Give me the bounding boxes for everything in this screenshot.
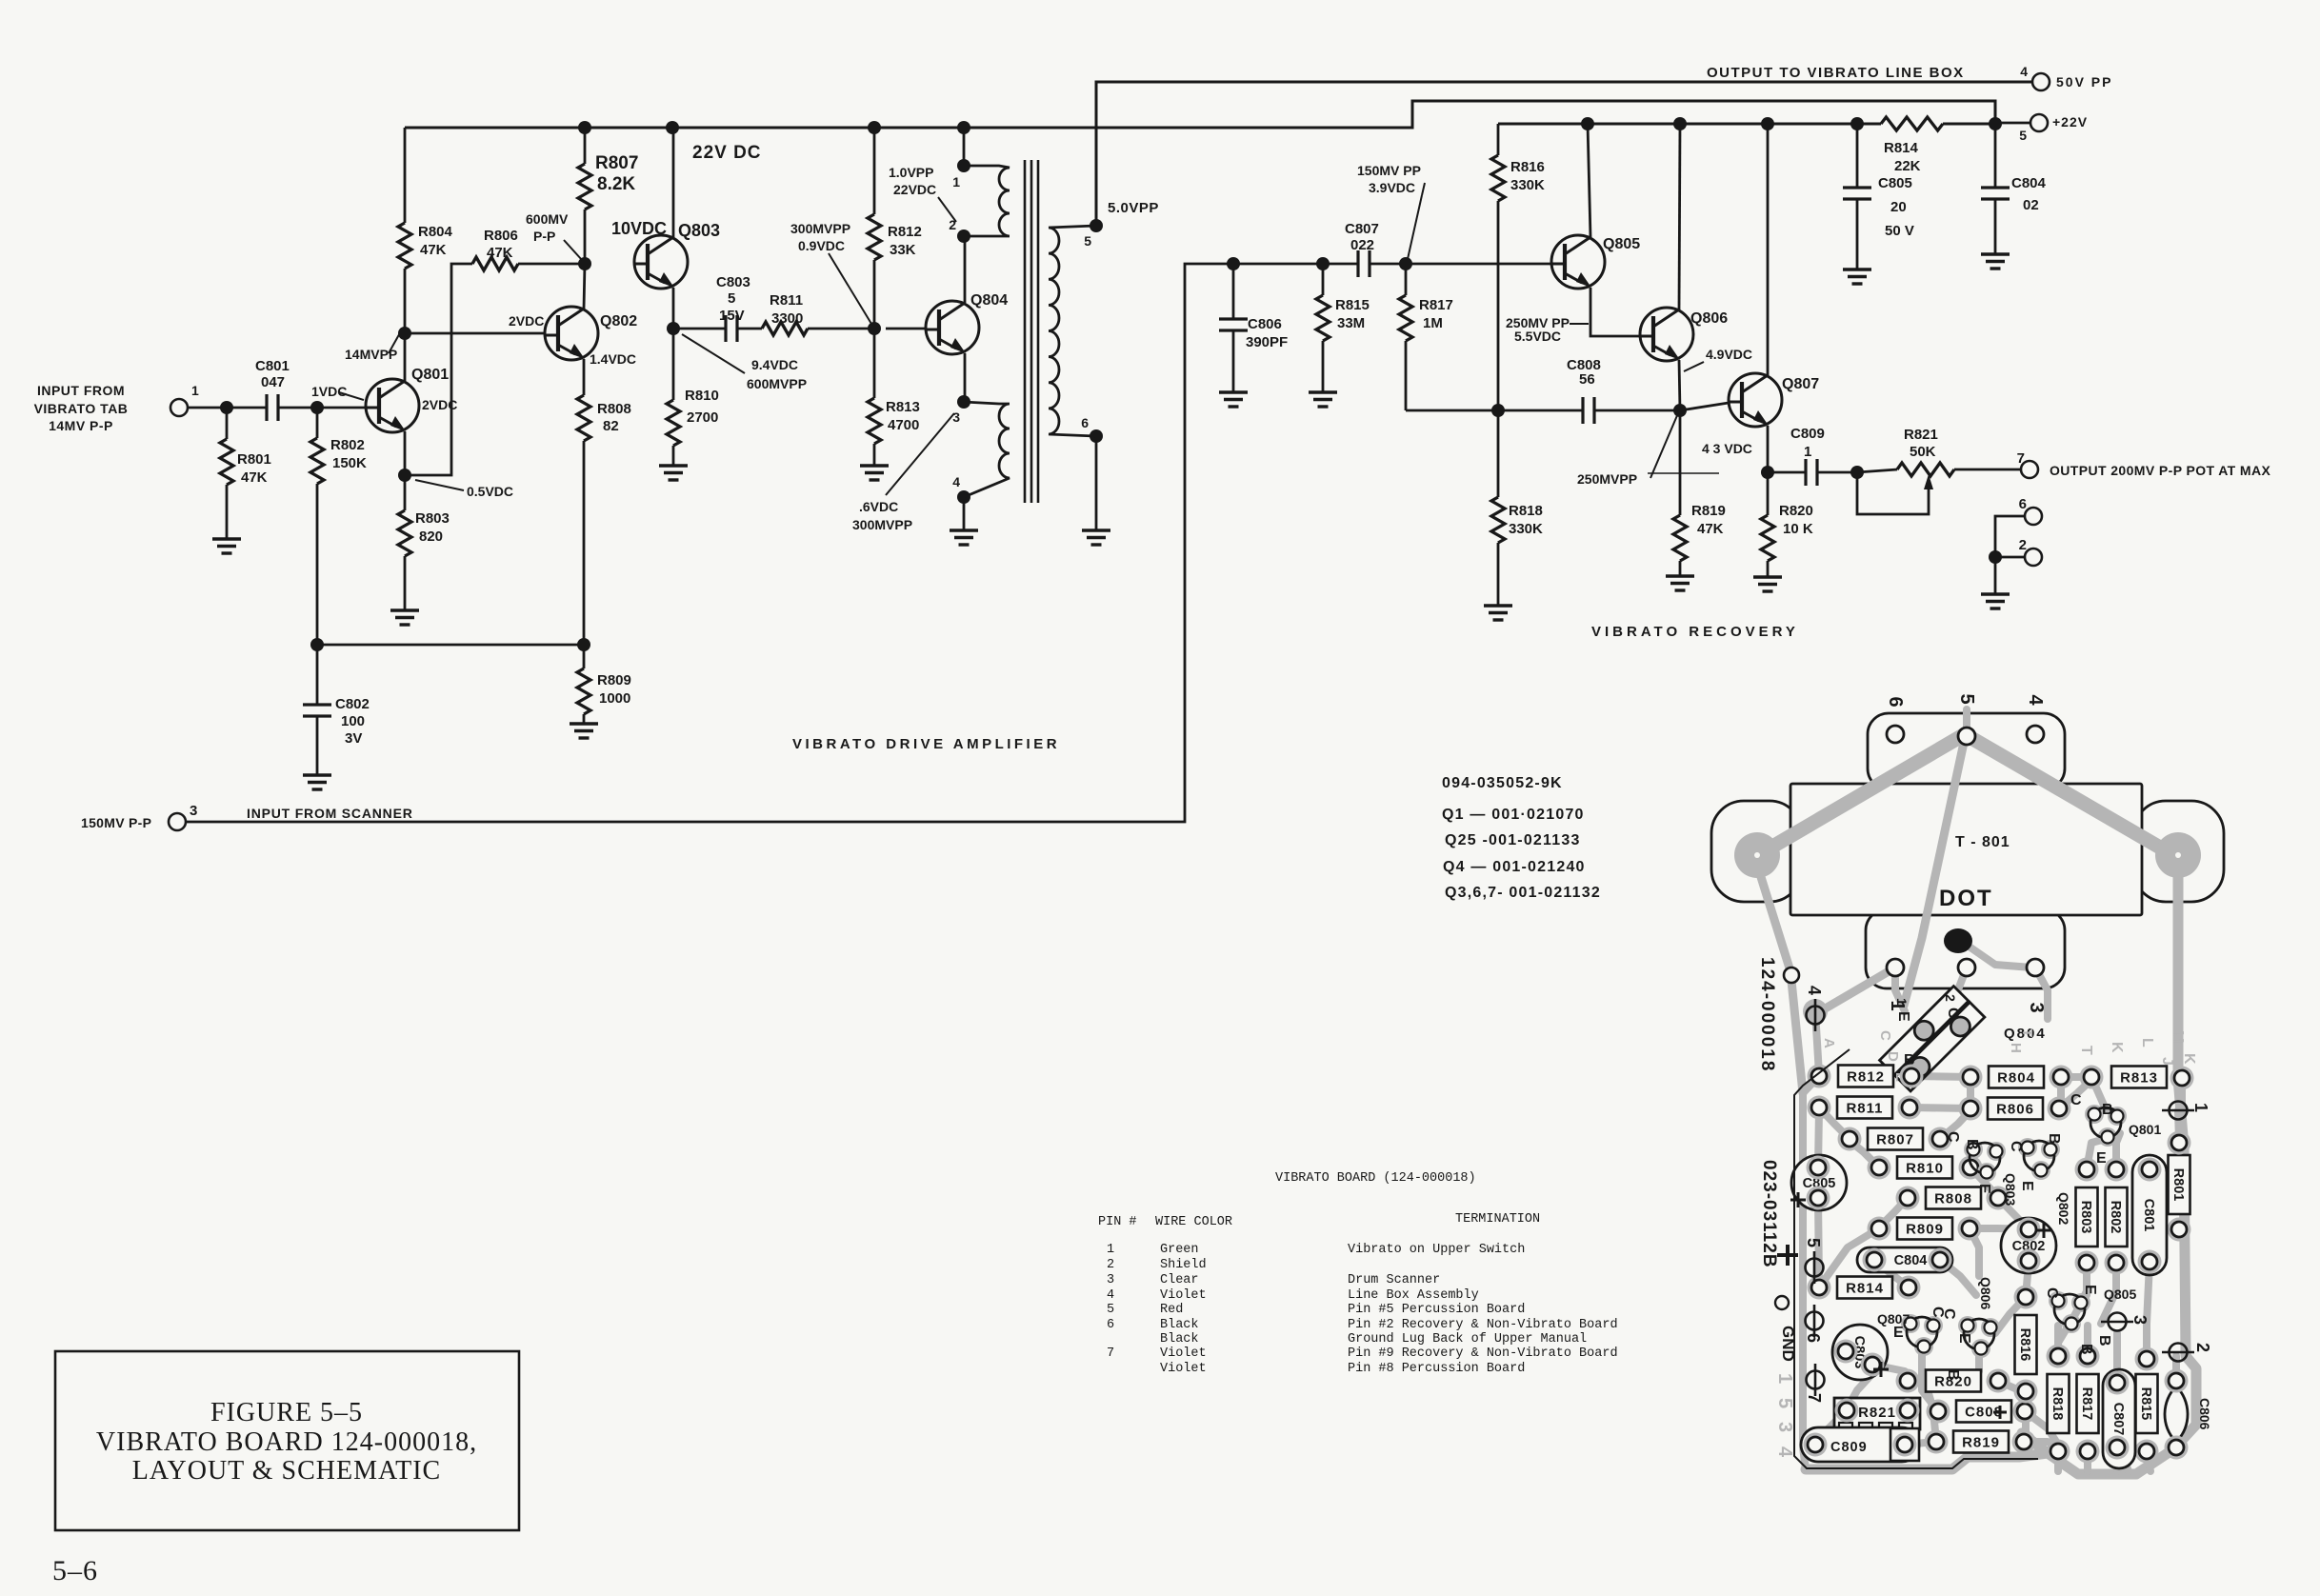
- pcb R811: [1837, 1097, 1892, 1119]
- pcb trace x10: [2025, 1229, 2032, 1261]
- svg-text:T: T: [2019, 1028, 2035, 1037]
- wire C803 to R811: [737, 328, 762, 330]
- wire Q806 emitter: [1679, 360, 1680, 410]
- svg-text:2: 2: [2193, 1343, 2212, 1352]
- ground R819: [1666, 576, 1694, 590]
- node R821: [1850, 466, 1864, 479]
- transistor Q802: [545, 307, 598, 360]
- pcb trace hole1 to pin4: [1817, 968, 1895, 1013]
- svg-text:R813: R813: [2120, 1070, 2158, 1087]
- svg-text:TERMINATION: TERMINATION: [1455, 1212, 1540, 1227]
- svg-text:Black: Black: [1160, 1318, 1199, 1332]
- pcb pad: [2050, 1066, 2073, 1089]
- pcb pad: [2080, 1066, 2104, 1089]
- svg-text:3: 3: [2026, 1002, 2047, 1012]
- svg-text:Shield: Shield: [1160, 1258, 1207, 1272]
- svg-text:6: 6: [1804, 1333, 1823, 1343]
- svg-text:47K: 47K: [487, 245, 513, 261]
- pcb pad: [1959, 1156, 1983, 1180]
- svg-text:OUTPUT TO VIBRATO LINE BOX: OUTPUT TO VIBRATO LINE BOX: [1707, 65, 1965, 81]
- pcb R808: [1926, 1187, 1981, 1209]
- capacitor C806: [1219, 319, 1248, 330]
- resistor R818: [1491, 497, 1505, 543]
- pcb pad: [2138, 1250, 2162, 1274]
- svg-text:1: 1: [191, 383, 199, 398]
- wire node to Q805 base: [1406, 263, 1551, 266]
- terminal pin 5 +22V: [2030, 114, 2048, 131]
- wire node to R818: [1497, 410, 1500, 497]
- svg-text:Q807: Q807: [1782, 376, 1819, 392]
- svg-text:Violet: Violet: [1160, 1288, 1207, 1303]
- svg-text:Clear: Clear: [1160, 1273, 1199, 1287]
- pcb pad: [1959, 1097, 1983, 1121]
- svg-text:6: 6: [1885, 696, 1906, 707]
- svg-text:2: 2: [1943, 994, 1958, 1002]
- pcb R817: [2077, 1374, 2099, 1433]
- node R816/R818: [1491, 404, 1505, 417]
- wire node to R817: [1405, 264, 1408, 295]
- svg-text:5: 5: [1956, 693, 1977, 704]
- capacitor C804: [1981, 188, 2010, 199]
- svg-text:R810: R810: [1906, 1161, 1944, 1177]
- pcb trace x7: [2057, 1077, 2065, 1105]
- pcb transistor Q802: [2018, 1138, 2037, 1157]
- pcb trace 3: [2059, 1080, 2091, 1108]
- svg-text:C803: C803: [716, 274, 750, 290]
- svg-text:10VDC: 10VDC: [611, 219, 667, 238]
- pcb trace 34: [1962, 1348, 1979, 1381]
- svg-text:Black: Black: [1160, 1332, 1199, 1347]
- svg-text:Red: Red: [1160, 1303, 1183, 1317]
- resistor R803: [398, 510, 411, 556]
- svg-text:E: E: [2096, 1150, 2107, 1167]
- svg-text:C: C: [2044, 1287, 2060, 1299]
- pcb pad: [1897, 1276, 1921, 1300]
- pcb capacitor C801: [2132, 1155, 2167, 1275]
- pcb trace 19: [2147, 1263, 2150, 1359]
- pcb pin 2: [2162, 1344, 2194, 1362]
- pcb pad: [1898, 1096, 1922, 1120]
- pcb trace 37: [1963, 709, 1970, 736]
- svg-text:2VDC: 2VDC: [509, 313, 544, 329]
- svg-text:300MVPP: 300MVPP: [790, 221, 850, 236]
- terminal pin 2: [2025, 549, 2042, 566]
- pcb trace left pad down: [1756, 862, 1803, 1093]
- pcb trace 16: [2101, 1263, 2116, 1324]
- svg-text:4700: 4700: [888, 417, 919, 433]
- wire to +22V terminal: [1995, 122, 2030, 125]
- pcb pad: [1804, 1433, 1828, 1457]
- pcb pad: [2012, 1430, 2036, 1454]
- wire C804 to ground: [1994, 199, 1997, 254]
- svg-text:7: 7: [1805, 1393, 1824, 1403]
- wire node to C809: [1768, 471, 1806, 474]
- pcb trace x2: [2119, 1446, 2129, 1471]
- pcb trace 25: [2113, 1333, 2121, 1383]
- terminal pin 1 input: [170, 399, 188, 416]
- pcb trace 22: [2025, 1411, 2058, 1445]
- pcb trace x17: [2178, 1078, 2186, 1110]
- wire Q804 emitter to pin3: [964, 353, 967, 402]
- leader 1VDC: [339, 392, 364, 400]
- wire R816 to node: [1497, 201, 1500, 410]
- svg-text:023-03112B: 023-03112B: [1759, 1160, 1779, 1268]
- pcb board outline: [1794, 1049, 2038, 1468]
- wire to R809: [583, 645, 586, 668]
- node rail C805: [1850, 117, 1864, 130]
- svg-text:P-P: P-P: [533, 229, 555, 244]
- svg-text:150MV PP: 150MV PP: [1357, 163, 1421, 178]
- node R815: [1316, 257, 1330, 270]
- svg-text:Q802: Q802: [600, 313, 637, 329]
- svg-text:33M: 33M: [1337, 315, 1365, 331]
- svg-text:R804: R804: [1997, 1070, 2035, 1087]
- pcb trace 6: [1850, 1141, 1879, 1167]
- svg-text:E: E: [1893, 1325, 1904, 1341]
- wire C802 to ground: [316, 716, 319, 775]
- wire node to Q804 base: [886, 328, 926, 330]
- svg-text:VIBRATO BOARD (124-000018): VIBRATO BOARD (124-000018): [1275, 1171, 1476, 1186]
- pcb T801 hole 2: [1958, 959, 1975, 976]
- transistor Q805: [1551, 235, 1605, 289]
- svg-text:B: B: [2078, 1344, 2094, 1355]
- pcb R813: [2111, 1067, 2167, 1088]
- wire R806 to node: [518, 263, 585, 266]
- capacitor C802: [303, 705, 331, 716]
- pcb trace 4: [1940, 1110, 1970, 1139]
- wire rail corner to R816: [1497, 124, 1500, 155]
- resistor R809: [577, 668, 590, 714]
- node C806: [1227, 257, 1240, 270]
- svg-text:R818: R818: [1509, 503, 1543, 519]
- pcb T801 hole 1: [1887, 959, 1904, 976]
- pcb transistor Q804: [1880, 987, 1985, 1091]
- svg-text:R815: R815: [2138, 1387, 2153, 1421]
- svg-text:15V: 15V: [719, 308, 745, 324]
- svg-text:0.5VDC: 0.5VDC: [467, 484, 513, 499]
- wire Q803 collector: [672, 128, 675, 237]
- pcb trace x15: [1895, 968, 1905, 1011]
- pcb pad: [1808, 1096, 1831, 1120]
- node 14MVPP: [398, 327, 411, 340]
- svg-text:VIBRATO DRIVE AMPLIFIER: VIBRATO DRIVE AMPLIFIER: [792, 736, 1060, 752]
- pcb pad: [1808, 1065, 1831, 1088]
- svg-text:1.0VPP: 1.0VPP: [889, 165, 933, 180]
- svg-text:47K: 47K: [241, 469, 268, 486]
- wire R809 to ground: [583, 714, 586, 724]
- svg-text:R802: R802: [330, 437, 365, 453]
- svg-text:C807: C807: [2110, 1403, 2126, 1436]
- svg-text:Q801: Q801: [411, 367, 449, 383]
- pcb trace 1: [2061, 1073, 2091, 1081]
- pcb pin 6: [1806, 1305, 1824, 1337]
- node T801 pin 5: [1090, 219, 1103, 232]
- pcb pad: [2165, 1369, 2189, 1393]
- svg-text:R813: R813: [886, 399, 920, 415]
- pcb trace x12: [2070, 1263, 2087, 1324]
- svg-text:50K: 50K: [1910, 444, 1936, 460]
- pcb transistor Q807: [1901, 1314, 1920, 1333]
- pcb trace 31: [1819, 1228, 1879, 1287]
- svg-text:R816: R816: [1510, 159, 1545, 175]
- svg-text:C801: C801: [2141, 1199, 2156, 1232]
- wire Q804 collector to pin2: [964, 236, 967, 303]
- svg-text:C: C: [1877, 1030, 1893, 1041]
- svg-text:5: 5: [1107, 1303, 1114, 1317]
- resistor R815: [1316, 295, 1330, 341]
- wire pin4 to ground: [963, 497, 966, 530]
- ground T801 pin4: [950, 530, 978, 545]
- pcb pad: [2014, 1380, 2038, 1404]
- svg-text:R817: R817: [2079, 1387, 2094, 1421]
- svg-text:3V: 3V: [345, 730, 362, 747]
- pcb pad: [1808, 1276, 1831, 1300]
- pcb pad: [1868, 1156, 1891, 1180]
- svg-text:R816: R816: [2017, 1328, 2032, 1362]
- pcb trace 2: [1910, 1107, 1970, 1108]
- svg-text:20: 20: [1890, 199, 1907, 215]
- pcb trace left edge: [1803, 1093, 1806, 1469]
- wire C806 to ground: [1232, 330, 1235, 392]
- svg-text:4: 4: [1107, 1288, 1114, 1303]
- ground C802: [303, 775, 331, 789]
- svg-text:Q806: Q806: [1978, 1277, 1993, 1309]
- pcb R818: [2048, 1374, 2070, 1433]
- wire terminal 6 down: [1995, 516, 2025, 557]
- pcb pad: [2106, 1371, 2130, 1395]
- pcb trace x5: [1998, 1381, 2026, 1400]
- pcb R807: [1868, 1128, 1923, 1150]
- pcb pin 7: [1807, 1364, 1825, 1396]
- transformer T801 secondary winding 5-6: [1049, 226, 1096, 436]
- svg-text:5.0VPP: 5.0VPP: [1108, 200, 1159, 216]
- svg-text:2: 2: [2019, 537, 2027, 553]
- wire scanner input: [186, 264, 1220, 822]
- pcb pad: [2076, 1345, 2100, 1368]
- pcb T801 right pad: [2155, 832, 2201, 878]
- wire C807 to node: [1370, 263, 1406, 266]
- pcb pad top-left: [1784, 968, 1799, 983]
- wire node to R804: [404, 269, 407, 333]
- svg-text:150K: 150K: [332, 455, 367, 471]
- pcb pad: [1929, 1127, 1952, 1151]
- svg-text:1: 1: [952, 174, 960, 190]
- capacitor C807: [1358, 250, 1370, 277]
- wire node to R820: [1767, 472, 1770, 515]
- plus C805: [1790, 1192, 1806, 1207]
- wire node to C803: [673, 328, 726, 330]
- leader 250MVPP dash: [1570, 323, 1589, 325]
- wire node to C806: [1232, 264, 1235, 319]
- ground C805: [1843, 269, 1871, 284]
- resistor R802: [310, 438, 324, 484]
- terminal pin 4: [2032, 73, 2050, 90]
- svg-text:3.9VDC: 3.9VDC: [1369, 180, 1415, 195]
- pcb pad: [1868, 1217, 1891, 1241]
- svg-text:4: 4: [2020, 64, 2028, 79]
- svg-text:R806: R806: [1996, 1102, 2034, 1118]
- figure title box: [55, 1351, 519, 1530]
- svg-text:5.5VDC: 5.5VDC: [1514, 329, 1561, 344]
- pcb trace x18: [1995, 1297, 2026, 1333]
- pcb trace 15: [2071, 1263, 2087, 1322]
- svg-text:2: 2: [1107, 1258, 1114, 1272]
- wire C808 to node: [1594, 409, 1680, 412]
- pcb pin 3: [2101, 1313, 2133, 1331]
- pcb trace x4: [2024, 1438, 2048, 1446]
- pcb R812: [1838, 1066, 1893, 1087]
- svg-text:600MV: 600MV: [526, 211, 569, 227]
- ground R809: [570, 724, 598, 738]
- ground R801: [212, 539, 241, 553]
- leader 150MVPP b: [1408, 195, 1422, 259]
- wire to R803: [404, 475, 407, 510]
- ground R810: [659, 466, 688, 480]
- wire C801 to Q801 base: [278, 407, 366, 409]
- pcb trace x6: [1967, 1077, 1974, 1108]
- svg-text:R818: R818: [2050, 1387, 2065, 1421]
- pcb pin 5: [1806, 1251, 1824, 1284]
- svg-text:250MVPP: 250MVPP: [1577, 471, 1637, 487]
- svg-text:Ground Lug Back of Upper Manua: Ground Lug Back of Upper Manual: [1348, 1332, 1587, 1347]
- svg-text:Violet: Violet: [1160, 1362, 1207, 1376]
- svg-text:A: A: [1821, 1038, 1837, 1048]
- pcb trace 27: [1815, 1410, 1847, 1443]
- pcb transistor Q805: [2049, 1291, 2068, 1310]
- svg-text:C: C: [2008, 1141, 2024, 1152]
- pcb trace 26: [1905, 1442, 1936, 1445]
- svg-text:L: L: [2139, 1038, 2155, 1047]
- wire R815 to ground: [1322, 341, 1325, 392]
- svg-text:R803: R803: [2078, 1201, 2093, 1234]
- pcb R810: [1897, 1157, 1952, 1179]
- svg-text:3: 3: [952, 409, 960, 425]
- svg-text:1: 1: [2191, 1103, 2210, 1112]
- node 0.5VDC: [398, 469, 411, 482]
- pcb transistor Q803: [1964, 1140, 1983, 1159]
- pcb pin 1: [2162, 1102, 2194, 1120]
- pcb pad: [2105, 1251, 2129, 1275]
- transistor Q806: [1640, 308, 1693, 361]
- svg-text:E: E: [2019, 1181, 2035, 1191]
- pot wiper arrow: [1924, 474, 1933, 489]
- pcb T801 hole 6: [1887, 726, 1904, 743]
- svg-text:3: 3: [1107, 1273, 1114, 1287]
- ground C804: [1981, 254, 2010, 269]
- pcb trace x8: [2087, 1139, 2106, 1169]
- wire to R801: [226, 408, 229, 439]
- svg-text:R812: R812: [888, 224, 922, 240]
- svg-text:R817: R817: [1419, 297, 1453, 313]
- svg-text:Pin #5 Percussion Board: Pin #5 Percussion Board: [1348, 1303, 1525, 1317]
- wire node to R810: [672, 329, 675, 400]
- pcb trace 10: [1818, 1109, 1819, 1167]
- transformer T801 primary winding 3-4: [964, 402, 1010, 497]
- resistor R819: [1673, 515, 1687, 561]
- transformer T801 core: [1024, 160, 1027, 503]
- pcb R809: [1897, 1218, 1952, 1240]
- node rail Q807: [1761, 117, 1774, 130]
- capacitor C808: [1583, 397, 1594, 424]
- plus pin5: [1777, 1245, 1798, 1266]
- transistor Q803: [634, 235, 688, 289]
- wire node to C807: [1220, 263, 1358, 266]
- svg-text:10 K: 10 K: [1783, 521, 1813, 537]
- svg-text:R808: R808: [1934, 1191, 1972, 1207]
- ground C806: [1219, 392, 1248, 407]
- resistor R808: [577, 395, 590, 441]
- svg-text:02: 02: [2023, 197, 2039, 213]
- wire R813 to ground: [873, 444, 876, 466]
- pcb pad: [2013, 1400, 2037, 1424]
- pcb trace 5: [1819, 1107, 1850, 1139]
- svg-text:5: 5: [728, 290, 735, 307]
- pcb T801 hole 3: [2027, 959, 2044, 976]
- pcb pad: [1929, 1248, 1952, 1272]
- svg-text:R801: R801: [237, 451, 271, 468]
- svg-text:Pin #2 Recovery & Non-Vibrato: Pin #2 Recovery & Non-Vibrato Board: [1348, 1318, 1618, 1332]
- svg-text:47K: 47K: [420, 242, 447, 258]
- svg-text:R807: R807: [595, 153, 638, 173]
- svg-text:R802: R802: [2108, 1201, 2123, 1234]
- svg-text:5: 5: [2019, 128, 2027, 143]
- wire input to C801: [188, 407, 267, 409]
- svg-text:R821: R821: [1858, 1405, 1896, 1421]
- wire pin6 to ground: [1095, 436, 1098, 530]
- svg-text:DOT: DOT: [1939, 886, 1993, 911]
- pcb capacitor C809: [1801, 1427, 1919, 1462]
- node rail R807: [578, 121, 591, 134]
- svg-text:330K: 330K: [1510, 177, 1545, 193]
- svg-text:B: B: [1945, 1369, 1961, 1381]
- pcb trace 28: [1847, 1368, 1877, 1409]
- capacitor C805: [1843, 188, 1871, 199]
- pcb trace 13: [1940, 1260, 1976, 1295]
- svg-text:Q803: Q803: [2003, 1173, 2018, 1206]
- pcb pad: [2165, 1436, 2189, 1460]
- svg-text:Q4 — 001-021240: Q4 — 001-021240: [1443, 859, 1586, 875]
- wire Q802 collector: [584, 264, 585, 309]
- leader 250MVPP c: [1650, 413, 1678, 478]
- svg-text:1: 1: [1774, 1373, 1795, 1384]
- wire C809 to pot node: [1817, 471, 1857, 474]
- svg-text:Q804: Q804: [970, 292, 1008, 309]
- pcb pad: [1838, 1127, 1862, 1151]
- svg-text:INPUT FROM: INPUT FROM: [37, 383, 125, 398]
- node T801 pin 4: [957, 490, 970, 504]
- pcb trace bottom edge: [1806, 1453, 2048, 1469]
- wire pot wiper: [1857, 472, 1929, 514]
- svg-text:D: D: [1885, 1051, 1901, 1062]
- svg-text:B: B: [2102, 1102, 2113, 1118]
- wire R801 to ground: [226, 485, 229, 539]
- svg-text:Q805: Q805: [2104, 1287, 2136, 1302]
- pcb trace top lambda: [1756, 734, 2178, 858]
- pcb pad: [2017, 1218, 2041, 1242]
- pcb pad: [1835, 1399, 1859, 1423]
- resistor R811: [762, 322, 808, 335]
- wire to C802: [316, 645, 319, 705]
- node C809: [1761, 466, 1774, 479]
- pcb trace x19: [2113, 1447, 2121, 1471]
- pcb R802: [2106, 1187, 2128, 1247]
- pcb T801 left pad: [1734, 832, 1780, 878]
- pcb C808: [1956, 1401, 2011, 1423]
- ground R815: [1309, 392, 1337, 407]
- pcb trace 30: [1803, 1076, 1819, 1093]
- pcb pad: [1807, 1156, 1830, 1180]
- svg-text:Green: Green: [1160, 1243, 1199, 1257]
